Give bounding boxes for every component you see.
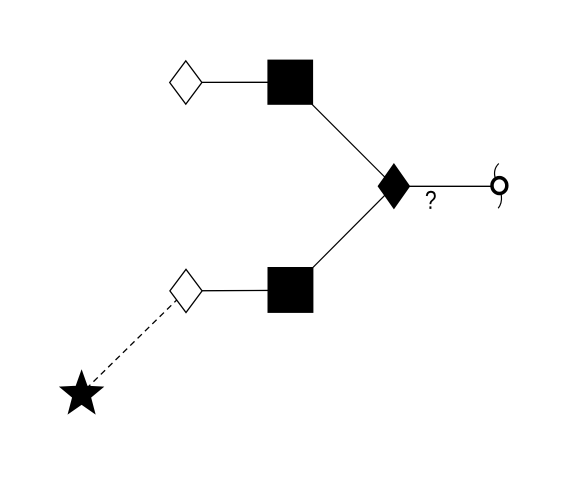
reducing end squiggle — [495, 164, 502, 209]
wire: dashed line white diamond bottom to star — [82, 291, 186, 393]
wire: black diamond to black square bottom (diagonal) — [291, 186, 394, 290]
black square top — [267, 60, 313, 105]
unknown linkage label ? — [426, 191, 436, 209]
wire: black square top to black diamond (diagonal) — [290, 82, 394, 186]
wire: white diamond top to black square top — [186, 81, 290, 83]
black square bottom — [268, 267, 314, 313]
black diamond — [378, 164, 409, 209]
white diamond top — [170, 61, 202, 104]
wire: black diamond to reducing-end circle — [394, 185, 500, 187]
wire: white diamond bottom to black square bottom — [186, 289, 291, 292]
reducing end circle — [492, 178, 507, 194]
white diamond bottom — [170, 269, 202, 312]
black star — [60, 371, 103, 414]
